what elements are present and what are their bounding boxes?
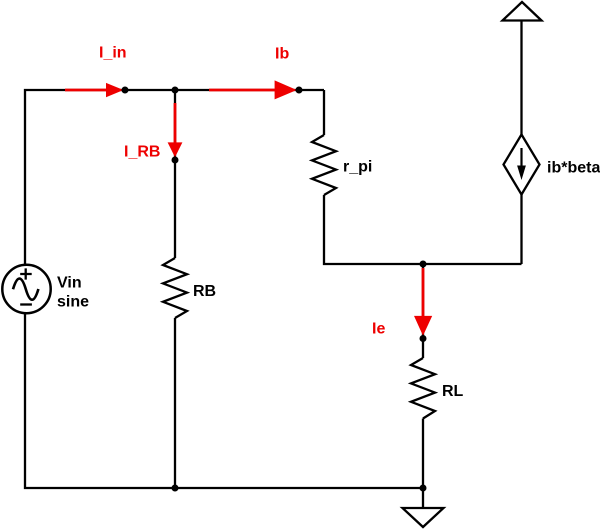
current arrow I_in head [106,83,124,97]
node: I_RB tip [172,157,179,164]
svg-text:RL: RL [442,383,464,400]
current arrow Ie shaft [422,268,425,318]
svg-text:r_pi: r_pi [343,159,372,176]
current arrow I_RB head [168,142,183,157]
wire: RL bottom to bottom node and ground [422,419,424,509]
svg-text:Ib: Ib [275,46,289,63]
wire: output terminal stem to dependent source [520,21,522,135]
svg-text:RB: RB [193,283,216,300]
wire: middle node down through RL branch [422,264,424,358]
node: Ib tip at r_pi branch [296,87,303,94]
svg-text:sine: sine [57,294,89,311]
voltage source plus sign [20,268,32,279]
current arrow Ib shaft [209,89,276,92]
voltage source Vin sine squiggle [13,279,38,300]
node: middle net junction [420,261,427,268]
node: ground junction on bottom rail [420,485,427,492]
svg-text:ib*beta: ib*beta [547,160,600,177]
resistor RL [411,358,435,419]
resistor RB [163,258,187,318]
terminal: up-pointing triangle output port [503,2,542,21]
wire: r_pi bottom to middle net [324,195,522,264]
wire: Vin minus to bottom rail and bottom net [25,313,423,488]
wire: base junction down to RB top [174,90,176,258]
voltage source minus sign [20,303,32,305]
dependent current source ib*beta diamond [504,135,540,195]
resistor r_pi [312,135,336,195]
current arrow Ie head [414,316,432,336]
wire: top net from left rail to r_pi corner [25,90,324,265]
wire: dependent source bottom to middle net [520,195,522,265]
node: base junction on top net [172,87,179,94]
current arrow I_in shaft [65,89,107,92]
dependent source internal arrow shaft [520,148,522,169]
svg-text:Vin: Vin [57,275,82,292]
current arrow I_RB shaft [174,103,177,144]
dependent source internal arrow head [517,166,526,181]
svg-text:Ie: Ie [372,321,385,338]
svg-text:I_RB: I_RB [124,144,160,161]
node: Ie tip above RL [420,335,427,342]
wire: top net corner down to r_pi top [323,90,325,135]
wire: RB bottom to bottom rail [174,318,176,488]
node: RB bottom on bottom rail [172,485,179,492]
svg-text:I_in: I_in [99,45,127,62]
voltage source Vin circle [2,265,50,313]
current arrow Ib head [275,80,297,99]
node: I_in tip on top net [122,87,129,94]
ground [403,508,444,527]
